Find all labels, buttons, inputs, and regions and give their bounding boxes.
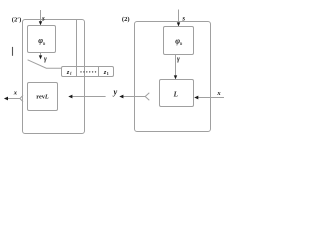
svg-text:y: y — [113, 88, 118, 97]
box phi_k (right) — [164, 27, 194, 55]
svg-text:(2′): (2′) — [12, 16, 22, 23]
svg-text:ℓ: ℓ — [70, 71, 72, 77]
box revL — [28, 83, 58, 111]
cell separator 2 — [98, 67, 100, 77]
svg-text:x: x — [13, 89, 18, 96]
dots — [80, 71, 96, 72]
arrowhead s (right) — [177, 22, 180, 26]
x output wire (left) — [8, 98, 20, 100]
arrowhead s (left) — [39, 21, 42, 25]
outer box (2') — [23, 20, 85, 134]
x input wire (right) — [198, 97, 224, 99]
svg-text:s: s — [181, 14, 185, 22]
arrowhead gamma (left) — [39, 55, 42, 59]
arrowhead x (right) — [194, 96, 198, 100]
y output wire (right) — [123, 96, 145, 98]
svg-text:L: L — [173, 90, 178, 98]
svg-text:(2): (2) — [122, 16, 130, 23]
tap wire above register — [76, 20, 78, 67]
wire gamma (left) — [40, 53, 42, 57]
wire s (right) — [178, 10, 180, 23]
wire gamma (right) — [175, 55, 177, 77]
svg-text:γ: γ — [177, 55, 180, 63]
fork tail x (left) — [20, 95, 23, 101]
wire s (left) — [40, 10, 42, 22]
cell separator 1 — [76, 67, 78, 77]
register cells — [62, 67, 114, 77]
wire gamma to register — [28, 60, 62, 68]
svg-text:k: k — [43, 41, 45, 46]
fork tail y (right) — [145, 93, 149, 100]
svg-text:revL: revL — [36, 94, 49, 101]
svg-text:k: k — [180, 41, 182, 46]
arrowhead y into revL — [68, 95, 72, 99]
svg-text:s: s — [41, 14, 45, 22]
stray bar — [12, 47, 14, 56]
arrowhead gamma (right) — [174, 75, 177, 79]
svg-text:x: x — [216, 90, 221, 97]
svg-text:γ: γ — [44, 55, 47, 63]
y input wire into revL — [72, 96, 106, 98]
arrowhead x (left) — [4, 97, 8, 101]
outer box (2) — [135, 22, 211, 132]
svg-text:1: 1 — [107, 71, 109, 76]
arrowhead y (right) — [119, 95, 123, 99]
box phi_k (left) — [28, 26, 56, 53]
box L — [160, 80, 194, 107]
